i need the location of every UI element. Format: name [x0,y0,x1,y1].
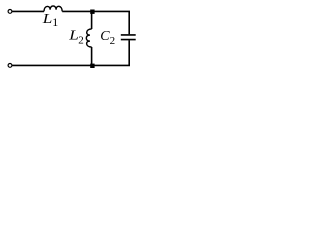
label C2 [100,29,115,47]
junction node top [90,10,94,14]
label L2 [68,28,84,46]
svg-text:L: L [42,12,53,27]
svg-text:2: 2 [110,35,116,47]
svg-text:L: L [68,28,79,43]
wire top-right horizontal + right vertical upper [62,11,129,34]
wire right vertical lower + bottom horizontal [12,40,129,65]
label L1 [42,12,59,29]
inductor L2 [86,29,91,47]
svg-text:1: 1 [52,15,58,29]
wire top-left horizontal [12,10,44,12]
junction node bottom [90,64,94,68]
terminal bottom-left [8,64,12,68]
wire L2 branch lower [91,47,93,65]
inductor L1 [44,6,62,11]
capacitor C2 [121,35,136,40]
wire L2 branch upper [91,11,93,29]
terminal top-left [8,10,12,14]
svg-text:2: 2 [78,35,84,47]
